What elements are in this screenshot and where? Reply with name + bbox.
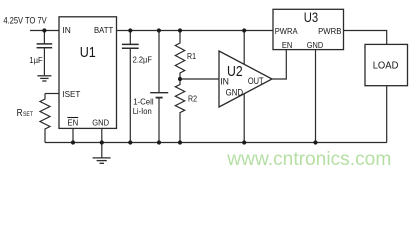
svg-text:1µF: 1µF <box>29 55 42 65</box>
svg-text:U2: U2 <box>227 63 243 80</box>
op-amp U2 triangle <box>219 51 272 107</box>
svg-text:PWRB: PWRB <box>318 26 342 36</box>
wire bottom rail <box>45 142 387 144</box>
wire U3 PWRB to LOAD <box>344 31 387 45</box>
op-amp U3 box <box>273 9 344 49</box>
node U2 power top <box>242 28 246 32</box>
node C2 bottom <box>128 140 132 144</box>
svg-text:R2: R2 <box>188 94 197 104</box>
wire input to IN <box>30 30 59 32</box>
svg-text:www.cntronics.com: www.cntronics.com <box>226 149 391 170</box>
svg-text:BATT: BATT <box>94 25 113 35</box>
svg-text:2.2µF: 2.2µF <box>133 54 152 64</box>
capacitor C1 1uF <box>37 31 53 76</box>
wire EN pin U1 <box>72 128 74 142</box>
svg-text:U1: U1 <box>80 44 96 61</box>
svg-text:EN: EN <box>67 118 78 128</box>
node GND bottom <box>100 140 104 144</box>
svg-text:R: R <box>17 108 23 119</box>
svg-text:SET: SET <box>23 111 33 118</box>
ground under C1 <box>37 76 51 81</box>
node divider mid <box>178 77 182 81</box>
battery BT1 1-cell li-ion <box>150 31 168 143</box>
wire U2 OUT to U3 EN <box>272 50 286 79</box>
wire ISET <box>45 93 59 95</box>
wire U2 gnd to rail <box>243 94 245 143</box>
resistor R2 <box>175 79 184 143</box>
svg-text:PWRA: PWRA <box>275 26 298 36</box>
wire divider to U2 IN <box>180 78 219 80</box>
svg-text:EN: EN <box>282 40 293 50</box>
op-amp U1 box <box>59 17 117 129</box>
node R2 bottom <box>178 140 182 144</box>
LOAD box <box>365 44 408 85</box>
resistor RSET <box>40 94 50 143</box>
node U2 gnd bottom <box>242 140 246 144</box>
node U3 gnd bottom <box>313 140 317 144</box>
wire U3 GND to rail <box>315 50 317 143</box>
node R1 top <box>178 28 182 32</box>
svg-text:GND: GND <box>226 87 244 98</box>
svg-text:IN: IN <box>62 25 70 35</box>
svg-text:U3: U3 <box>304 10 318 25</box>
node battery top <box>157 28 161 32</box>
svg-text:1-Cell: 1-Cell <box>133 96 154 106</box>
wire GND pin U1 <box>101 128 103 157</box>
svg-text:OUT: OUT <box>248 76 264 87</box>
wire BATT rail <box>117 30 274 32</box>
wire LOAD bottom to rail <box>386 86 388 143</box>
svg-text:IN: IN <box>220 76 229 87</box>
svg-text:Li-Ion: Li-Ion <box>133 106 152 116</box>
capacitor C2 2.2uF <box>122 31 139 143</box>
svg-text:GND: GND <box>307 40 323 50</box>
resistor R1 <box>175 31 184 80</box>
svg-text:GND: GND <box>92 118 109 128</box>
svg-text:ISET: ISET <box>62 89 80 99</box>
svg-text:4.25V TO 7V: 4.25V TO 7V <box>3 15 46 25</box>
ground under U1 GND <box>93 158 111 163</box>
node input junction <box>42 28 46 32</box>
svg-text:LOAD: LOAD <box>373 60 399 71</box>
node EN bottom <box>71 140 75 144</box>
node battery bottom <box>157 140 161 144</box>
wire U2 power from rail <box>243 31 245 65</box>
svg-text:R1: R1 <box>187 51 196 61</box>
node C2 top <box>128 28 132 32</box>
